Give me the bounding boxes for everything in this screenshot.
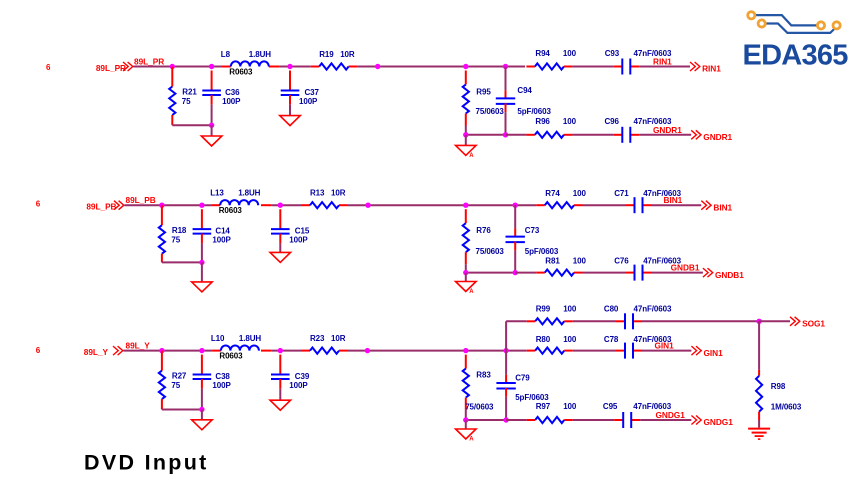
svg-text:R98: R98 [771,382,786,391]
EDA365 logo [748,12,841,33]
wire branch [506,313,759,329]
resistor R23 10R [310,334,346,354]
svg-text:10R: 10R [340,50,355,59]
svg-text:75: 75 [171,236,180,245]
svg-text:R76: R76 [476,226,491,235]
svg-text:C80: C80 [604,304,619,313]
wire branch [536,197,701,213]
svg-text:100: 100 [563,117,577,126]
svg-text:C73: C73 [525,226,540,235]
svg-text:R81: R81 [545,257,560,266]
svg-text:100: 100 [563,335,577,344]
off-page ref 6 [46,63,51,72]
svg-text:C95: C95 [603,402,618,411]
svg-text:R94: R94 [535,49,550,58]
svg-text:C96: C96 [605,117,620,126]
svg-text:GNDG1: GNDG1 [704,417,734,427]
svg-text:GNDB1: GNDB1 [715,270,744,280]
svg-text:R74: R74 [545,189,560,198]
ground [270,400,291,410]
svg-text:GNDB1: GNDB1 [671,263,700,273]
junction [463,64,468,69]
svg-text:SOG1: SOG1 [802,319,825,329]
svg-text:GNDR1: GNDR1 [703,132,732,142]
svg-text:C71: C71 [614,189,629,198]
junction [503,417,508,422]
wire branch [527,343,692,359]
resistor R74 100 [545,189,586,198]
junction [170,64,175,69]
junction [159,348,164,353]
svg-text:R21: R21 [182,88,197,97]
svg-text:1.8UH: 1.8UH [239,334,261,343]
earth ground [748,429,770,440]
wire bottom [162,261,202,263]
svg-text:75: 75 [182,97,191,106]
svg-text:R80: R80 [536,335,551,344]
resistor R21 [169,67,197,126]
port 89L_PR [96,62,133,73]
svg-text:6: 6 [36,199,41,208]
ground [280,116,301,126]
capacitor C14 [193,209,232,262]
junction [287,64,292,69]
wire branch [506,127,692,143]
wire gnd branch [466,134,506,136]
off-page ref 6 [36,346,41,355]
junction [463,270,468,275]
svg-text:C15: C15 [295,227,310,236]
svg-text:1M/0603: 1M/0603 [771,403,802,412]
junction [365,348,370,353]
svg-text:C38: C38 [215,372,230,381]
capacitor C95 [603,402,672,411]
wire SOG riser [505,321,507,350]
ground [201,125,222,146]
inductor L13 [210,189,260,216]
wire gnd branch [466,419,506,421]
svg-text:GIN1: GIN1 [704,348,724,358]
svg-text:R18: R18 [172,226,187,235]
wire [466,204,537,206]
resistor R99 100 [536,304,577,313]
resistor R80 100 [536,335,577,344]
svg-text:10R: 10R [331,189,346,198]
svg-text:100P: 100P [289,236,308,245]
resistor R76 [463,209,505,272]
wire main [123,350,465,352]
svg-text:A: A [469,289,474,295]
svg-text:GIN1: GIN1 [655,341,675,351]
ground A [456,135,477,159]
ground A [456,420,477,443]
wire main [133,66,465,68]
svg-text:R27: R27 [172,372,187,381]
resistor R81 100 [545,257,586,266]
svg-text:EDA365: EDA365 [743,39,849,71]
capacitor C36 [202,71,241,126]
svg-text:6: 6 [36,346,41,355]
svg-text:R97: R97 [536,402,551,411]
capacitor C76 [614,257,681,266]
svg-text:10R: 10R [331,334,346,343]
svg-text:100P: 100P [289,381,308,390]
off-page ref 6 [36,199,41,208]
junction [503,348,508,353]
junction [513,270,518,275]
title DVD Input [84,451,209,475]
port BIN1 [701,201,732,213]
wire [466,350,527,352]
svg-text:75: 75 [171,381,180,390]
junction [513,203,518,208]
svg-text:100P: 100P [212,381,231,390]
svg-text:89L_PB: 89L_PB [126,195,156,205]
junction [209,123,214,128]
port GNDG1 [691,416,733,428]
svg-text:100P: 100P [222,97,241,106]
capacitor C73 [506,205,559,272]
resistor R18 [159,205,187,262]
junction [199,348,204,353]
port RIN1 [690,62,721,74]
net label 89L_PB [126,195,156,205]
wire branch [506,412,691,428]
svg-text:100: 100 [573,189,587,198]
svg-text:6: 6 [46,63,51,72]
svg-text:R99: R99 [536,304,551,313]
wire [466,66,525,68]
resistor R97 100 [536,402,577,411]
junction [159,203,164,208]
svg-text:C37: C37 [305,88,320,97]
svg-text:A: A [469,437,474,443]
svg-text:L10: L10 [211,334,225,343]
svg-text:100: 100 [573,257,587,266]
ground A [456,273,477,295]
svg-text:100: 100 [563,49,577,58]
junction [365,203,370,208]
resistor R94 100 [535,49,576,58]
svg-text:R96: R96 [535,117,550,126]
wire main [124,204,465,206]
svg-text:C79: C79 [515,374,530,383]
net label GNDG1 [656,410,686,420]
svg-text:1.8UH: 1.8UH [249,50,271,59]
svg-text:GNDR1: GNDR1 [653,125,682,135]
net label GIN1 [655,341,675,351]
port GNDB1 [703,268,744,280]
capacitor C79 [496,351,549,420]
svg-text:C39: C39 [295,372,310,381]
svg-text:R0603: R0603 [229,68,253,77]
svg-text:C14: C14 [215,227,230,236]
svg-text:1.8UH: 1.8UH [238,189,260,198]
net label GNDR1 [653,125,682,135]
svg-text:C94: C94 [517,86,532,95]
svg-text:R19: R19 [319,50,334,59]
junction SOG [756,319,761,324]
junction [209,64,214,69]
svg-text:DVD Input: DVD Input [84,451,209,475]
junction [199,407,204,412]
svg-text:5pF/0603: 5pF/0603 [517,107,551,116]
svg-text:100: 100 [563,402,577,411]
inductor L10 [211,334,261,361]
svg-text:GNDG1: GNDG1 [656,410,686,420]
wire bottom [162,409,202,411]
svg-text:89L_PB: 89L_PB [86,202,116,212]
svg-text:100: 100 [563,304,577,313]
svg-text:89L_PR: 89L_PR [96,63,126,73]
capacitor C71 [614,189,681,198]
ground [192,262,213,292]
junction [278,203,283,208]
svg-text:BIN1: BIN1 [713,202,732,212]
svg-text:C36: C36 [225,88,240,97]
capacitor C39 [271,355,310,401]
capacitor C78 [604,335,672,344]
junction [503,64,508,69]
svg-text:R0603: R0603 [219,352,243,361]
junction [463,203,468,208]
EDA365 wordmark [743,39,849,71]
resistor R27 [159,351,187,410]
net label [0,0,1,1]
svg-text:RIN1: RIN1 [653,57,672,67]
junction [375,64,380,69]
port 89L_PB [86,201,123,212]
junction [503,132,508,137]
junction [463,132,468,137]
svg-text:BIN1: BIN1 [664,195,683,205]
svg-text:RIN1: RIN1 [702,64,721,74]
net label GNDB1 [671,263,700,273]
svg-text:R95: R95 [476,88,491,97]
capacitor C93 [605,49,672,58]
svg-text:L8: L8 [221,50,231,59]
wire branch [515,265,703,281]
svg-text:C93: C93 [605,49,620,58]
inductor L8 [221,50,271,77]
svg-text:5pF/0603: 5pF/0603 [515,393,549,402]
resistor R95 [463,71,505,135]
capacitor C96 [605,117,672,126]
junction [463,417,468,422]
svg-text:R83: R83 [476,370,491,379]
svg-text:75/0603: 75/0603 [465,403,494,412]
svg-text:100P: 100P [299,97,318,106]
junction [278,348,283,353]
svg-text:C78: C78 [604,335,619,344]
svg-text:R23: R23 [310,334,325,343]
svg-text:89L_Y: 89L_Y [84,347,109,357]
capacitor C80 [604,304,672,313]
wire SOG [759,320,790,322]
junction [199,260,204,265]
svg-text:R13: R13 [310,189,325,198]
capacitor C38 [193,355,232,410]
svg-text:R0603: R0603 [219,206,243,215]
ground [270,252,291,262]
svg-text:A: A [469,153,474,159]
junction [199,203,204,208]
junction [463,348,468,353]
svg-text:89L_Y: 89L_Y [126,341,151,351]
port GIN1 [691,346,723,358]
ground [192,410,213,430]
net label 89L_Y [126,341,151,351]
net label BIN1 [664,195,683,205]
net label RIN1 [653,57,672,67]
port 89L_Y [84,346,123,357]
wire branch [526,59,690,75]
svg-text:89L_PR: 89L_PR [134,57,164,67]
port GNDR1 [691,130,732,142]
svg-text:100P: 100P [212,236,231,245]
capacitor C94 [496,67,552,135]
svg-text:C76: C76 [614,257,629,266]
svg-text:47nF/0603: 47nF/0603 [634,304,672,313]
resistor R19 10R [319,50,355,70]
resistor R96 100 [535,117,576,126]
net label 89L_PR [134,57,164,67]
svg-text:5pF/0603: 5pF/0603 [525,247,559,256]
svg-text:75/0603: 75/0603 [476,247,505,256]
wire bottom [172,124,211,126]
capacitor C15 [271,209,310,252]
svg-text:L13: L13 [210,189,224,198]
capacitor C37 [281,71,320,116]
port SOG1 [790,317,825,329]
wire gnd branch [466,272,515,274]
resistor R83 [463,355,494,420]
resistor R98 [756,321,802,427]
resistor R13 10R [310,189,346,209]
svg-text:75/0603: 75/0603 [476,107,505,116]
